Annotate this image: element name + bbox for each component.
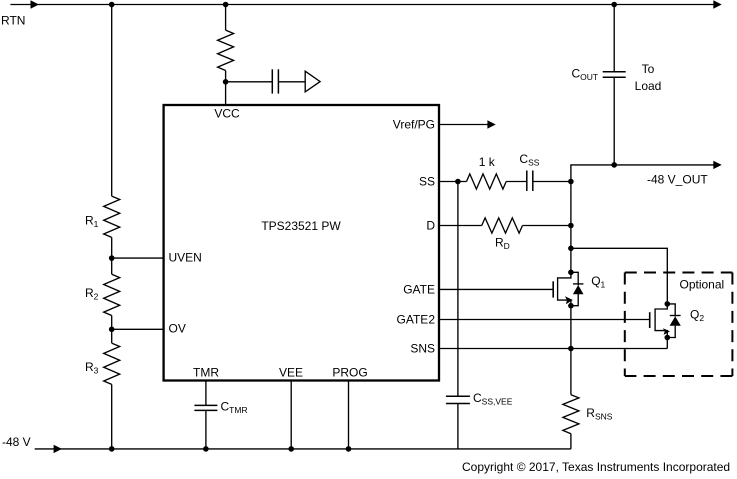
svg-text:1 k: 1 k	[479, 155, 496, 169]
node -48 V arrow	[54, 445, 62, 453]
wire SNS pin lead	[439, 348, 667, 350]
node junction D/drain	[568, 223, 574, 229]
node junction VCC/aux cap	[223, 79, 229, 85]
svg-text:UVEN: UVEN	[169, 251, 202, 265]
svg-text:GATE2: GATE2	[397, 313, 436, 327]
op-amp U1 TPS23521 PW IC body	[164, 105, 439, 381]
svg-text:PROG: PROG	[332, 366, 367, 380]
capacitor CSS,VEE	[446, 391, 513, 407]
svg-text:VEE: VEE	[279, 366, 303, 380]
svg-text:VCC: VCC	[214, 107, 240, 121]
resistor R1	[85, 196, 120, 237]
transistor Q1	[553, 272, 605, 305]
node RTN right arrow	[713, 0, 721, 8]
node junction SNS/RSNS	[568, 346, 574, 352]
wire VCC branch from RTN	[225, 5, 227, 106]
optional block dashed box	[625, 273, 733, 377]
wire Q2 source to SNS line	[666, 338, 668, 349]
resistor 1 k	[467, 155, 507, 189]
node junction Q1 source	[568, 303, 574, 309]
resistor R3	[85, 343, 120, 384]
wire OV pin lead	[112, 328, 164, 330]
wire RSNS to bottom rail	[570, 434, 572, 449]
wire Vref/PG output	[439, 124, 488, 126]
node junction UVEN	[109, 255, 115, 261]
wire SS pin lead	[439, 181, 571, 183]
node junction RTN/COUT	[611, 2, 617, 8]
capacitor aux (unlabelled)	[272, 69, 278, 93]
transistor Q2	[650, 304, 705, 338]
svg-text:Load: Load	[635, 79, 662, 93]
wire VCC aux branch	[226, 81, 306, 83]
node junction SS/CSS,VEE	[455, 179, 461, 185]
node junction PROG/-48V	[346, 446, 352, 452]
node junction Q2 drain	[665, 301, 671, 307]
resistor RSNS	[563, 395, 613, 434]
resistor RD	[482, 218, 523, 251]
wire VEE pin lead	[290, 381, 292, 449]
svg-text:-48 V: -48 V	[2, 435, 31, 449]
svg-text:OV: OV	[169, 322, 186, 336]
capacitor CTMR	[194, 400, 247, 416]
resistor VCC series (unlabelled)	[218, 30, 234, 70]
capacitor CSS	[519, 152, 539, 191]
node RTN arrow	[31, 0, 39, 8]
svg-text:Vref/PG: Vref/PG	[393, 118, 435, 132]
wire COUT branch	[613, 5, 615, 165]
svg-text:D: D	[426, 219, 435, 233]
wire -48 V_OUT rail	[571, 165, 714, 182]
wire Q1 source to RSNS	[570, 306, 572, 395]
wire CSS,VEE vertical branch	[457, 182, 459, 449]
node junction Q2 branch	[568, 246, 574, 252]
node junction Q1 drain	[568, 270, 574, 276]
wire TMR pin lead	[205, 381, 207, 449]
svg-text:-48 V_OUT: -48 V_OUT	[647, 173, 708, 187]
node junction TMR/-48V	[203, 446, 209, 452]
wire UVEN pin lead	[112, 257, 164, 259]
svg-text:GATE: GATE	[403, 283, 435, 297]
node aux triangle symbol	[305, 71, 320, 92]
wire D pin lead	[439, 225, 571, 227]
node junction RTN/R1	[109, 2, 115, 8]
svg-text:Copyright © 2017, Texas Instru: Copyright © 2017, Texas Instruments Inco…	[462, 460, 730, 474]
wire left ladder vertical (RTN to -48V)	[111, 5, 113, 449]
node Vref/PG arrow	[487, 120, 495, 128]
svg-text:RTN: RTN	[1, 14, 25, 28]
resistor R2	[85, 274, 120, 315]
node -48 V_OUT arrow	[713, 161, 721, 169]
svg-text:SS: SS	[419, 175, 435, 189]
node junction VEE/-48V	[288, 446, 294, 452]
svg-text:To: To	[642, 62, 655, 76]
node junction SS/V_OUT	[568, 179, 574, 185]
wire RTN bus (top rail)	[10, 4, 713, 6]
wire GATE2 pin lead	[439, 319, 650, 321]
wire Q2 gate-drain branch	[571, 248, 667, 304]
svg-text:TMR: TMR	[193, 366, 219, 380]
svg-text:SNS: SNS	[410, 342, 435, 356]
node junction RTN/VCC resistor	[223, 2, 229, 8]
wire GATE pin lead	[439, 288, 553, 290]
node junction Q2 source	[665, 335, 671, 341]
node junction COUT/V_OUT	[611, 162, 617, 168]
node junction OV	[109, 327, 115, 333]
wire PROG pin lead	[348, 381, 350, 449]
wire -48 V bottom rail	[35, 448, 571, 450]
capacitor COUT	[572, 67, 626, 83]
wire main drain vertical (SS node to Q1)	[570, 182, 572, 273]
svg-text:TPS23521 PW: TPS23521 PW	[261, 219, 341, 233]
svg-text:Optional: Optional	[680, 278, 725, 292]
node junction ladder/-48V	[109, 446, 115, 452]
